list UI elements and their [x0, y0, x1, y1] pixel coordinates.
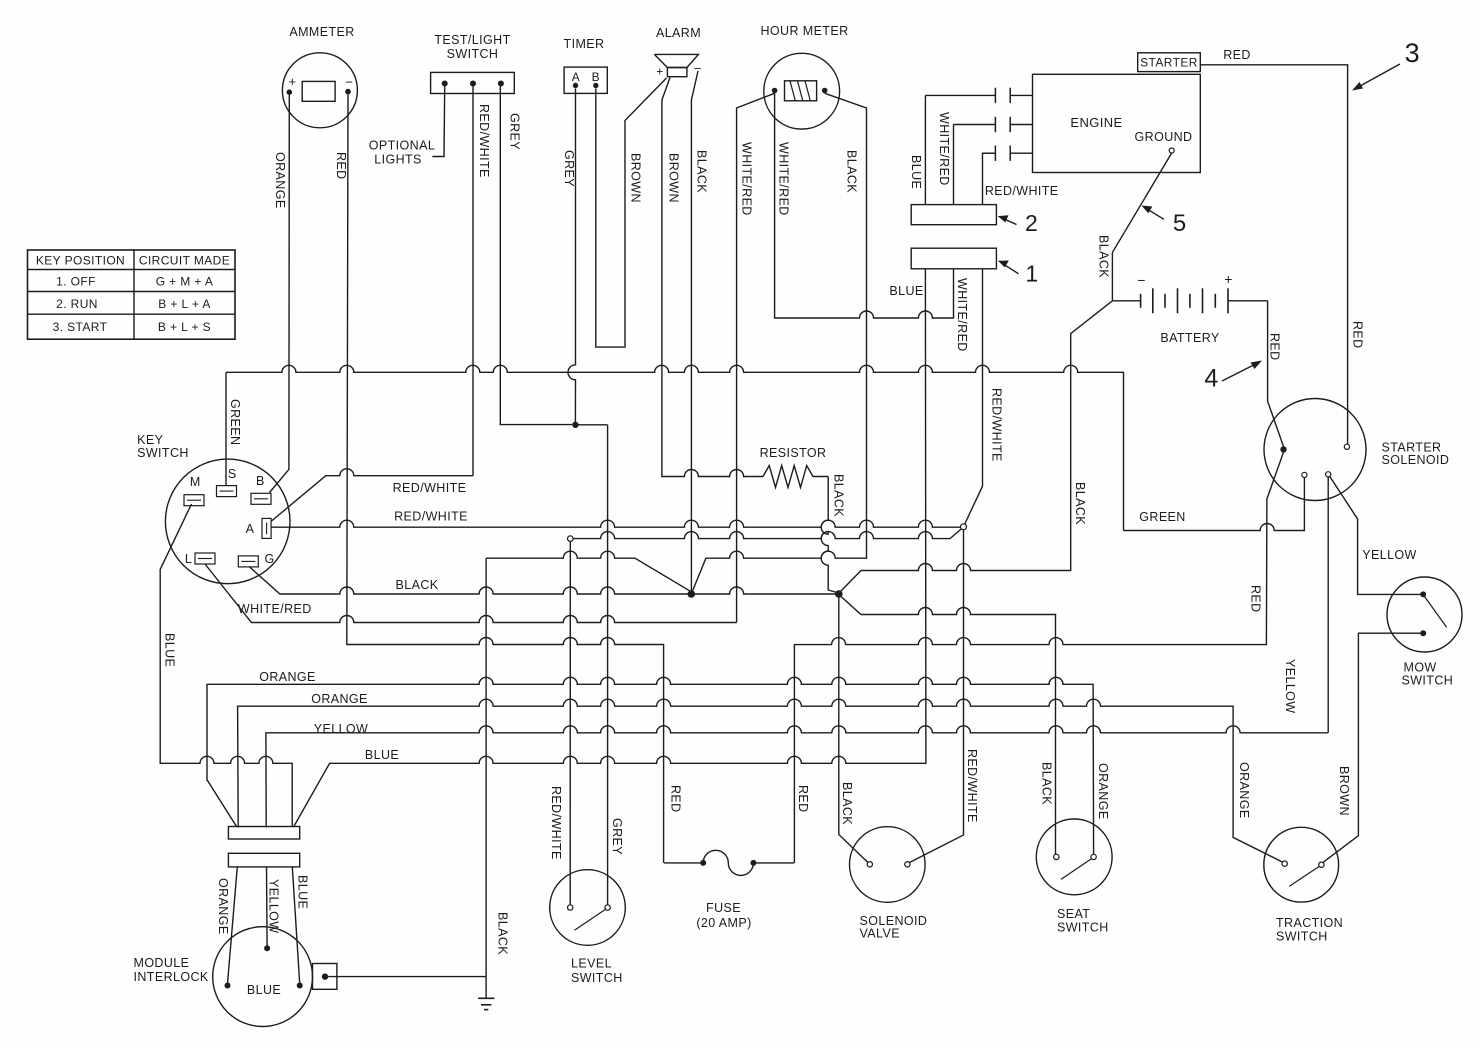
wire module orange [228, 867, 238, 984]
svg-text:GREEN: GREEN [1139, 510, 1185, 524]
svg-text:GREY: GREY [562, 150, 576, 187]
svg-text:ORANGE: ORANGE [1237, 762, 1251, 819]
svg-text:BROWN: BROWN [1337, 766, 1351, 816]
wire black (junction1 to junction2) [695, 587, 836, 594]
engine [1033, 74, 1201, 172]
starter terminal [1138, 53, 1201, 72]
svg-text:KEY: KEY [137, 433, 163, 447]
svg-text:BROWN: BROWN [667, 153, 681, 203]
svg-text:RED/WHITE: RED/WHITE [990, 388, 1004, 462]
fuse [664, 850, 794, 930]
svg-text:ORANGE: ORANGE [273, 152, 287, 209]
svg-text:BLACK: BLACK [845, 150, 859, 193]
engine connector row 3 (red/white) [983, 152, 996, 154]
wire orange (bundle 2 / traction switch) [238, 699, 1283, 862]
svg-text:RED/WHITE: RED/WHITE [394, 510, 468, 524]
node grey junction [572, 422, 578, 428]
wire brown (timer B to alarm) [596, 78, 667, 347]
svg-text:+: + [656, 65, 663, 79]
svg-text:RED/WHITE: RED/WHITE [393, 481, 467, 495]
svg-text:2: 2 [1025, 210, 1038, 236]
svg-text:+: + [1224, 271, 1233, 287]
module interlock connector bar 2 [228, 853, 299, 867]
node black junction 1 [688, 590, 696, 598]
wire white/red (hour meter 2) [775, 93, 954, 318]
svg-text:CIRCUIT MADE: CIRCUIT MADE [139, 254, 230, 268]
svg-text:BLACK: BLACK [840, 782, 854, 825]
wire orange (bundle1 to module) [207, 780, 237, 827]
key switch [137, 433, 290, 584]
engine connector row 1 (blue) [925, 94, 995, 96]
svg-text:3. START: 3. START [53, 320, 108, 334]
wire black (ground line left) [486, 551, 690, 591]
svg-text:RESISTOR: RESISTOR [760, 446, 827, 460]
wire white/red (hour meter 1) [737, 93, 775, 622]
wire bus top [226, 365, 1124, 530]
svg-text:RED/WHITE: RED/WHITE [477, 104, 491, 178]
wire optional lights [432, 87, 444, 157]
svg-text:TRACTION: TRACTION [1276, 916, 1343, 930]
svg-text:3: 3 [1405, 38, 1420, 68]
wire red/white A-to-pin2 [272, 469, 474, 521]
svg-text:ORANGE: ORANGE [259, 670, 316, 684]
svg-text:GREY: GREY [508, 113, 522, 150]
svg-text:WHITE/RED: WHITE/RED [238, 602, 312, 616]
svg-text:RED: RED [334, 152, 348, 180]
timer [564, 37, 608, 93]
svg-text:WHITE/RED: WHITE/RED [955, 278, 969, 352]
starter solenoid [1264, 399, 1449, 501]
svg-text:ALARM: ALARM [656, 26, 701, 40]
svg-text:SWITCH: SWITCH [1276, 930, 1328, 944]
callout 2 [1002, 218, 1017, 225]
wire engine row1 riser [924, 95, 926, 204]
module interlock connector bar 1 [228, 827, 299, 840]
wire grey (test pin3) [500, 87, 572, 425]
svg-text:FUSE: FUSE [706, 901, 741, 915]
svg-text:ENGINE: ENGINE [1070, 115, 1122, 130]
svg-text:1. OFF: 1. OFF [56, 275, 96, 289]
key switch terminal B [251, 493, 271, 504]
wire red (fuse to solenoid) [794, 452, 1283, 863]
svg-text:SWITCH: SWITCH [137, 446, 189, 460]
svg-text:M: M [190, 475, 201, 489]
svg-text:RED: RED [1351, 321, 1365, 349]
svg-text:WHITE/RED: WHITE/RED [740, 142, 754, 216]
wire orange (bundle 1 / seat switch) [207, 677, 1094, 854]
wire module yellow [266, 867, 269, 946]
svg-text:MODULE: MODULE [134, 956, 190, 970]
alarm [654, 26, 702, 79]
svg-text:ORANGE: ORANGE [311, 692, 368, 706]
wire black (G line) [249, 567, 688, 595]
svg-text:ORANGE: ORANGE [216, 878, 230, 935]
svg-text:KEY POSITION: KEY POSITION [36, 254, 125, 268]
svg-text:BLUE: BLUE [909, 155, 923, 189]
callout 1 [1002, 263, 1019, 274]
svg-text:GROUND: GROUND [1135, 130, 1193, 144]
wire yellow (solenoid to mow) [1330, 477, 1421, 595]
svg-text:BLUE: BLUE [163, 633, 177, 667]
svg-text:SWITCH: SWITCH [571, 971, 623, 985]
svg-text:AMMETER: AMMETER [289, 25, 354, 39]
wire black (battery to harness) [841, 301, 1113, 592]
svg-text:ORANGE: ORANGE [1096, 763, 1110, 820]
svg-text:TIMER: TIMER [564, 37, 605, 51]
svg-text:LEVEL: LEVEL [571, 957, 612, 971]
connector 1 [911, 248, 996, 269]
svg-text:B: B [592, 70, 600, 84]
svg-text:WHITE/RED: WHITE/RED [777, 142, 791, 216]
wire red (starter) [1200, 65, 1347, 444]
module side connector [313, 964, 337, 990]
connector 2 [911, 205, 996, 225]
wire red/white (level switch) [569, 541, 571, 904]
svg-text:A: A [246, 522, 255, 536]
svg-text:RED: RED [1268, 333, 1282, 361]
wire brown (alarm to resistor) [662, 78, 749, 477]
svg-text:BLACK: BLACK [496, 912, 510, 955]
level switch [550, 870, 626, 985]
wire red/white (junction to solenoid valve) [910, 530, 964, 863]
mow switch [1387, 577, 1462, 688]
wire green (S terminal) [225, 372, 227, 485]
svg-text:VALVE: VALVE [860, 927, 900, 941]
svg-text:LIGHTS: LIGHTS [374, 153, 422, 167]
wire red/white (connector to junction) [965, 269, 983, 525]
callout 4 [1222, 363, 1259, 382]
svg-text:B + L + S: B + L + S [158, 320, 211, 334]
svg-text:BLUE: BLUE [365, 748, 399, 762]
svg-text:YELLOW: YELLOW [1283, 659, 1297, 714]
test/light switch [431, 33, 515, 94]
svg-text:+: + [289, 74, 297, 89]
svg-text:BROWN: BROWN [629, 153, 643, 203]
svg-text:BLACK: BLACK [695, 150, 709, 193]
svg-text:GREY: GREY [610, 818, 624, 855]
wire red/white branch [570, 529, 961, 539]
svg-text:BLUE: BLUE [889, 284, 923, 298]
module interlock [134, 927, 313, 1027]
seat switch [1036, 819, 1112, 935]
wire module-to-ground [328, 976, 486, 978]
callout 3 [1356, 64, 1401, 89]
svg-text:OPTIONAL: OPTIONAL [369, 139, 435, 153]
wire brown (mow to traction) [1323, 633, 1420, 862]
svg-text:BLACK: BLACK [1073, 482, 1087, 525]
svg-text:B + L + A: B + L + A [158, 297, 211, 311]
resistor [749, 466, 829, 488]
wire black (junction to seat switch) [841, 597, 1056, 855]
svg-text:G: G [264, 552, 274, 566]
traction switch [1264, 827, 1343, 943]
engine connector row 2 (white/red) [954, 124, 996, 126]
svg-text:INTERLOCK: INTERLOCK [134, 970, 209, 984]
node black junction 2 [835, 590, 843, 598]
svg-text:2. RUN: 2. RUN [56, 297, 98, 311]
svg-text:B: B [256, 474, 265, 488]
svg-text:BLACK: BLACK [1040, 762, 1054, 805]
svg-text:BATTERY: BATTERY [1160, 331, 1220, 345]
wire grey (timer A) [568, 89, 576, 425]
wire red/white pin2 drop [472, 87, 474, 476]
wire yellow (solenoid drop) [1327, 477, 1329, 733]
svg-text:SWITCH: SWITCH [1057, 921, 1109, 935]
svg-text:GREEN: GREEN [228, 399, 242, 445]
callout 5 [1145, 208, 1164, 220]
wire red (battery to solenoid) [1268, 301, 1284, 447]
battery [1112, 271, 1267, 345]
svg-text:4: 4 [1204, 365, 1218, 393]
svg-text:−: − [1137, 272, 1146, 288]
svg-text:YELLOW: YELLOW [1362, 548, 1417, 562]
svg-text:SWITCH: SWITCH [1402, 674, 1454, 688]
wire black (hour meter) [693, 93, 867, 591]
wire orange (ammeter to B) [270, 95, 290, 493]
svg-text:HOUR METER: HOUR METER [760, 24, 848, 38]
svg-text:RED: RED [796, 785, 810, 813]
svg-text:BLUE: BLUE [247, 983, 281, 997]
key switch terminal S [217, 486, 237, 497]
svg-text:SWITCH: SWITCH [447, 47, 499, 61]
wire white/red (L line) [205, 564, 737, 623]
svg-text:A: A [572, 70, 580, 84]
key switch terminal L [195, 553, 215, 564]
wire blue (M terminal to module) [160, 504, 292, 827]
key switch terminal A [262, 518, 271, 538]
node red/white junction [961, 524, 967, 530]
wire engine row3 riser [983, 153, 996, 204]
wire green (to solenoid) [1124, 478, 1305, 531]
svg-text:RED/WHITE: RED/WHITE [985, 184, 1059, 198]
wire black (ground drop) [485, 558, 487, 976]
wire black (junction to solenoid valve) [839, 597, 868, 862]
wire module blue [292, 867, 299, 984]
svg-text:STARTER: STARTER [1140, 56, 1198, 70]
svg-text:RED: RED [669, 785, 683, 813]
solenoid valve [850, 827, 928, 941]
svg-text:TEST/LIGHT: TEST/LIGHT [434, 33, 510, 47]
svg-text:−: − [345, 75, 353, 90]
svg-text:RED/WHITE: RED/WHITE [549, 786, 563, 860]
svg-text:G + M + A: G + M + A [156, 275, 214, 289]
svg-text:MOW: MOW [1404, 661, 1437, 675]
key switch terminal G [238, 556, 258, 567]
svg-text:L: L [185, 552, 192, 566]
svg-text:RED: RED [1223, 48, 1251, 62]
wire yellow (bundle) [266, 726, 1328, 828]
hour meter [760, 24, 848, 129]
svg-text:5: 5 [1173, 210, 1187, 237]
svg-text:S: S [228, 467, 237, 481]
svg-text:(20 AMP): (20 AMP) [696, 916, 751, 930]
ammeter [282, 25, 357, 128]
svg-text:RED: RED [1249, 585, 1263, 613]
svg-text:BLACK: BLACK [832, 474, 846, 517]
svg-text:WHITE/RED: WHITE/RED [937, 112, 951, 186]
svg-text:RED/WHITE: RED/WHITE [965, 749, 979, 823]
svg-text:SEAT: SEAT [1057, 907, 1090, 921]
svg-text:1: 1 [1025, 261, 1038, 287]
wire black (resistor to junction) [821, 477, 837, 593]
wire engine row2 riser [953, 125, 955, 205]
wire red (ammeter to fuse) [347, 94, 664, 863]
wire black (alarm) [691, 71, 698, 591]
svg-text:YELLOW: YELLOW [314, 722, 369, 736]
key position table [28, 250, 236, 339]
wire grey (junction to level switch) [575, 424, 607, 426]
svg-text:BLACK: BLACK [1097, 235, 1111, 278]
wire red/white A-line [272, 520, 962, 527]
key switch terminal M [184, 495, 204, 506]
svg-text:YELLOW: YELLOW [267, 879, 281, 934]
svg-text:SOLENOID: SOLENOID [1382, 453, 1450, 467]
wire blue (bundle / connector1) [294, 269, 926, 827]
ground [478, 977, 494, 1010]
svg-text:BLACK: BLACK [396, 578, 439, 592]
svg-text:BLUE: BLUE [296, 875, 310, 909]
wire black (engine ground) [1112, 153, 1171, 301]
